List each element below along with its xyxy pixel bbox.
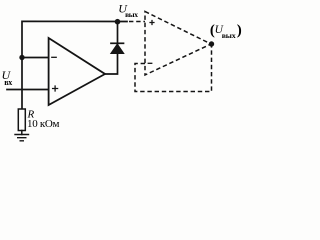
svg-text:вх: вх (4, 78, 12, 87)
svg-text:вых: вых (222, 31, 236, 40)
svg-text:): ) (237, 23, 242, 39)
svg-text:10 кОм: 10 кОм (27, 118, 60, 130)
svg-text:вых: вых (125, 10, 138, 19)
